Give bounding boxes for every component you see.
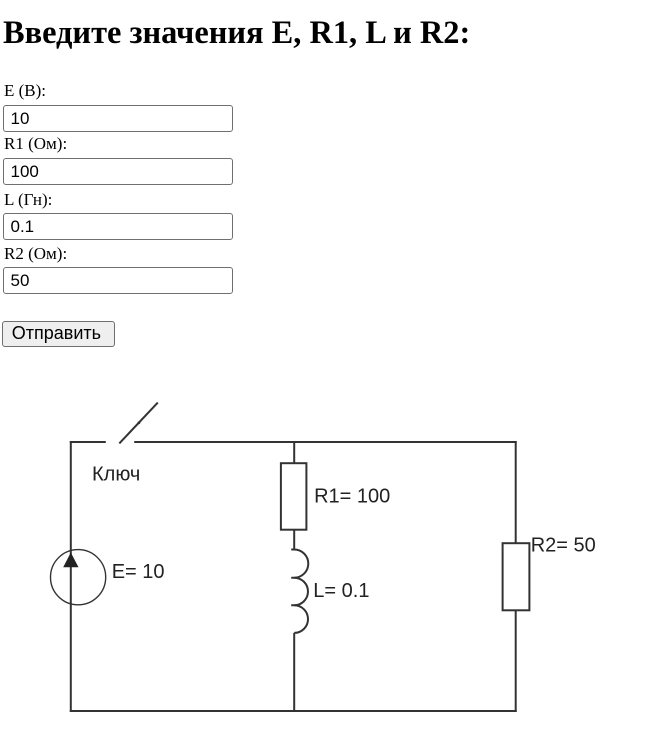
label L (Gn): <box>4 191 52 208</box>
wire: top segment from switch to top-right corner <box>134 441 517 443</box>
wire: left vertical branch <box>70 441 72 712</box>
wire: top-left segment from left corner to switch <box>70 441 106 443</box>
wire: R1 to inductor <box>293 530 295 550</box>
svg-text:E= 10: E= 10 <box>112 561 165 583</box>
value label R2= 50 <box>531 535 596 557</box>
value label E= 10 <box>112 561 165 583</box>
source E circle <box>51 550 106 605</box>
heading <box>3 22 470 45</box>
wire: bottom horizontal <box>70 710 517 712</box>
wire: right vertical branch <box>515 441 517 712</box>
input R1 value 100 <box>3 158 233 185</box>
inductor L coil (3 arcs) <box>291 550 308 633</box>
resistor R1 body <box>281 463 307 530</box>
svg-text:Ключ: Ключ <box>92 464 140 486</box>
svg-text:R2= 50: R2= 50 <box>531 535 596 557</box>
wire: inductor to bottom <box>293 633 295 712</box>
value label L= 0.1 <box>313 580 369 602</box>
value label R1= 100 <box>314 485 390 507</box>
input E value 10 <box>3 105 233 132</box>
svg-text:R1= 100: R1= 100 <box>314 485 390 507</box>
submit button <box>2 321 114 346</box>
svg-text:L= 0.1: L= 0.1 <box>313 580 369 602</box>
label R1 (Om): <box>4 135 67 152</box>
source E arrow <box>63 553 78 568</box>
label Ключ <box>92 464 140 486</box>
input L value 0.1 <box>3 213 233 240</box>
switch (Ключ) blade <box>119 403 158 444</box>
input R2 value 50 <box>3 267 233 294</box>
label R2 (Om): <box>4 245 67 262</box>
label E (B): <box>4 82 46 99</box>
wire: middle branch top (to R1) <box>293 441 295 463</box>
resistor R2 body <box>503 543 530 610</box>
